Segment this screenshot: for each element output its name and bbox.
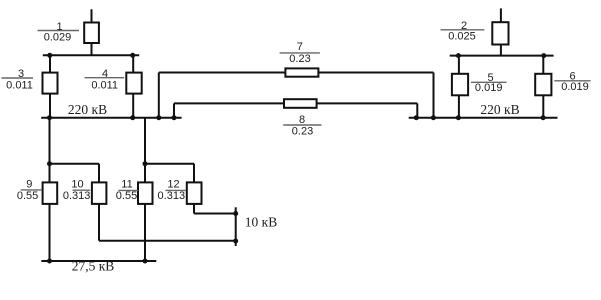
resistor 11 — [138, 182, 153, 204]
wire line8 horizontal — [174, 102, 417, 104]
wire branch A horizontal — [50, 163, 100, 165]
junction dot branch A — [47, 161, 52, 166]
fraction bar label 10 — [73, 189, 91, 191]
fraction bar label 12 — [165, 189, 185, 191]
wire R10 bottom drop — [98, 203, 100, 241]
resistor 6 — [535, 74, 551, 96]
junction dot R4 bottom bus — [130, 115, 135, 120]
svg-text:11: 11 — [121, 179, 132, 191]
wire R2 to top-right bus — [500, 44, 502, 56]
wire R4 bottom — [132, 93, 134, 118]
fraction bar label 11 — [118, 189, 138, 191]
fraction bar label 5 — [471, 81, 507, 83]
svg-text:220 кВ: 220 кВ — [480, 102, 519, 117]
svg-text:9: 9 — [26, 179, 32, 191]
wire line7 right drop — [433, 73, 435, 118]
resistor 12 — [187, 182, 202, 204]
junction dot line7 right — [431, 115, 436, 120]
resistor 2 — [492, 22, 508, 44]
node 27.5kV busbar — [41, 260, 156, 262]
wire R6 top — [542, 56, 544, 75]
fraction bar label 1 — [38, 30, 80, 32]
resistor 5 — [452, 74, 468, 96]
fraction bar label 3 — [2, 77, 34, 79]
wire R12 to 10kV node — [194, 213, 236, 215]
junction dot 10kV top — [233, 211, 238, 216]
svg-text:0.23: 0.23 — [289, 53, 310, 65]
resistor 7 — [285, 68, 318, 76]
svg-text:0.313: 0.313 — [63, 190, 91, 202]
node 10kV bar — [235, 207, 237, 246]
fraction bar label 6 — [554, 80, 590, 82]
resistor 3 — [43, 73, 58, 94]
wire line8 right drop — [416, 103, 418, 117]
wire R4 top — [132, 55, 134, 73]
junction dot R3 top bus — [47, 53, 52, 58]
svg-text:220 кВ: 220 кВ — [68, 102, 107, 117]
wire line7 horizontal — [159, 72, 434, 74]
wire R3 top — [49, 55, 51, 73]
junction dot bottom bus left — [47, 259, 52, 264]
junction dot R3 bottom bus — [47, 115, 52, 120]
junction dot R5 top bus — [456, 53, 461, 58]
wire main vertical A through R9 — [49, 118, 51, 261]
junction dot line8 right — [414, 115, 419, 120]
node top-left 220kV busbar top — [43, 54, 139, 56]
svg-text:0.313: 0.313 — [158, 190, 186, 202]
wire R5 top — [458, 56, 460, 75]
svg-text:7: 7 — [297, 41, 303, 53]
svg-text:0.019: 0.019 — [561, 81, 589, 93]
junction dot R4 top bus — [130, 53, 135, 58]
wire branch B drop to R12 — [193, 164, 195, 183]
resistor 1 — [84, 23, 99, 44]
junction dot branch B — [143, 161, 148, 166]
junction dot 10kV bottom — [233, 239, 238, 244]
svg-text:0.55: 0.55 — [17, 190, 38, 202]
junction dot line8 left — [172, 115, 177, 120]
resistor 8 — [284, 99, 317, 108]
resistor 10 — [92, 182, 107, 204]
wire branch B horizontal — [145, 163, 194, 165]
svg-text:3: 3 — [18, 68, 24, 80]
wire R5 bottom — [458, 95, 460, 118]
node right 220kV busbar — [409, 117, 558, 119]
svg-text:0.23: 0.23 — [292, 125, 313, 137]
wire stub above R2 — [500, 8, 502, 23]
wire branch A drop to R10 — [98, 164, 100, 183]
resistor 4 — [126, 73, 141, 94]
wire line8 left drop — [173, 103, 175, 117]
svg-text:10: 10 — [71, 179, 83, 191]
wire R3 bottom — [49, 93, 51, 118]
wire R12 bottom drop — [193, 203, 195, 214]
fraction bar label 7 — [280, 52, 320, 54]
svg-text:8: 8 — [299, 114, 305, 126]
fraction bar label 9 — [21, 189, 42, 191]
svg-text:27,5 кВ: 27,5 кВ — [72, 259, 115, 274]
svg-text:0.55: 0.55 — [116, 190, 137, 202]
svg-text:0.029: 0.029 — [44, 31, 72, 43]
junction dot R5 bottom bus — [456, 115, 461, 120]
svg-text:0.011: 0.011 — [91, 79, 118, 91]
svg-text:0.025: 0.025 — [448, 31, 476, 43]
svg-text:0.019: 0.019 — [475, 82, 503, 94]
svg-text:10 кВ: 10 кВ — [245, 215, 277, 230]
junction dot R6 top bus — [541, 53, 546, 58]
wire line7 left drop — [158, 73, 160, 118]
node left 220kV busbar — [41, 117, 181, 119]
fraction bar label 2 — [441, 29, 485, 31]
junction dot bottom bus right — [143, 259, 148, 264]
svg-text:4: 4 — [102, 68, 108, 80]
wire R10 to 10kV node — [99, 240, 236, 242]
svg-text:0.011: 0.011 — [6, 79, 33, 91]
wire R6 bottom — [542, 95, 544, 118]
wire stub above R1 — [91, 9, 93, 23]
junction dot line7 left — [156, 115, 161, 120]
svg-text:12: 12 — [167, 179, 179, 191]
junction dot R6 bottom bus — [541, 115, 546, 120]
resistor 9 — [43, 182, 58, 204]
wire main vertical B through R11 — [144, 118, 146, 261]
fraction bar label 8 — [283, 124, 321, 126]
node top-right 220kV busbar top — [450, 55, 554, 57]
wire R1 to top-left bus — [91, 42, 93, 55]
fraction bar label 4 — [85, 77, 125, 79]
